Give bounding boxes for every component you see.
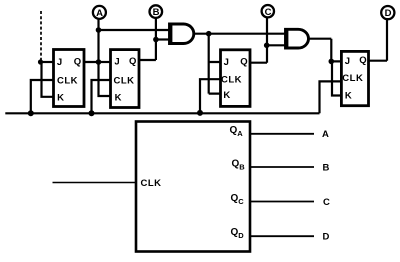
svg-text:A: A [322,129,329,140]
svg-text:CLK: CLK [113,76,134,87]
wire: node A to AND gate G1 top input [99,29,170,31]
flip-flop FF3 [221,50,251,107]
node: bus to FF2 CLK [89,110,95,116]
svg-text:A: A [96,8,103,19]
svg-text:D: D [323,232,330,243]
node: A branch to gate 1 [96,27,102,33]
AND gate G1 [170,24,194,44]
flip-flop FF2 [111,50,140,108]
wire: output QA to A [250,133,314,135]
svg-text:K: K [115,93,122,104]
svg-text:J: J [224,57,229,68]
node: G1 output branch to FF3 [206,31,212,37]
svg-text:Q: Q [129,56,136,67]
wire: input to FF1 J (dashed vertical) [40,11,42,62]
svg-text:K: K [57,93,64,104]
wire: G1 output down to FF3 J and K [209,34,221,94]
flip-flop FF4 [341,51,368,105]
svg-text:CLK: CLK [221,75,242,86]
svg-text:C: C [265,7,272,18]
flip-flop FF1 [54,50,85,107]
svg-text:Q: Q [74,57,81,68]
wire: FF4 CLK from clock bus end [320,81,342,113]
wire: clock bus [5,112,319,114]
wire: node A to FF2 J input [99,61,111,63]
wire: FF1 Q to node A riser [84,19,99,62]
wire: FF1 CLK from clock bus [31,80,54,113]
wire: FF3 Q to node C riser [250,17,267,63]
block U2: 4-bit counter [136,122,250,252]
wire: output QC to C [250,201,314,203]
terminal C [262,5,274,18]
svg-text:CLK: CLK [342,73,363,84]
svg-text:J: J [114,57,119,68]
wire: FF3 CLK from clock bus [200,79,221,113]
svg-text:B: B [153,7,160,18]
svg-text:K: K [345,90,352,101]
node: FF4 J junction [329,59,335,65]
node: bus to FF1 CLK [28,110,34,116]
wire: CLK input to block [53,182,137,184]
wire: node C to AND gate G2 bottom input [267,44,286,46]
terminal B [150,5,163,18]
wire: output QD to D [250,235,314,237]
node: bus to FF3 CLK [197,110,203,116]
node: FF1 Q / FF2 J junction [96,59,102,65]
AND gate G2 [286,29,309,48]
wire: FF2 Q to node B riser [139,18,156,60]
terminal D [381,6,394,19]
svg-text:CLK: CLK [141,178,162,189]
svg-text:K: K [223,90,230,101]
svg-text:C: C [323,197,330,208]
wire: FF4 J-K tie [332,61,341,95]
svg-text:D: D [385,8,392,19]
node: B branch to gate 1 [153,37,159,43]
svg-text:Q: Q [359,55,366,66]
wire: output QB to B [250,166,314,168]
svg-text:B: B [323,162,330,173]
wire: FF2 CLK from clock bus [92,80,111,113]
wire: FF1 J-K tie [42,62,54,97]
wire: FF2 J-K tie [99,62,111,96]
svg-text:CLK: CLK [57,76,78,87]
svg-text:J: J [57,57,62,68]
wire: FF4 Q to node D riser [369,20,388,61]
wire: G1 output to G2 top input [194,33,286,35]
svg-text:Q: Q [240,56,247,67]
wire: to FF1 J input [41,61,54,63]
svg-text:J: J [345,56,350,67]
node: C branch to gate 2 [264,43,270,49]
terminal A [93,6,106,19]
node: FF1 J junction [38,59,43,64]
wire: node B to AND gate G1 bottom input [156,38,170,40]
wire: G2 output to FF4 J [309,39,342,62]
